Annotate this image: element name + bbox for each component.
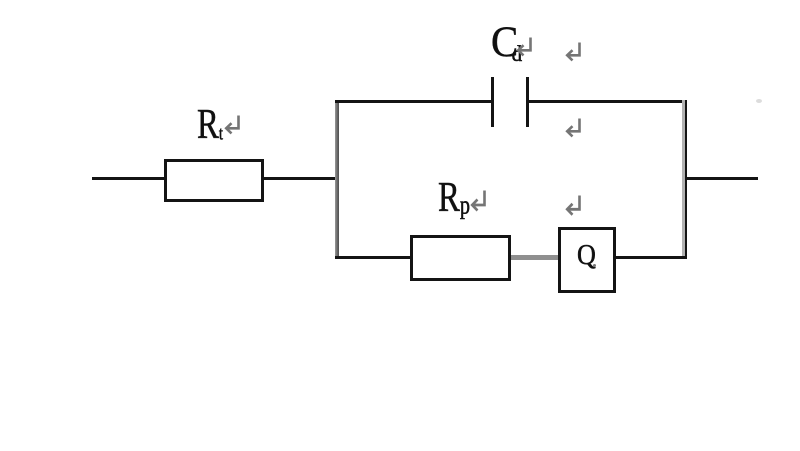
label R_s	[197, 104, 223, 146]
paragraph return mark after C_d	[515, 37, 532, 57]
wire: left entry lead	[92, 177, 165, 180]
paragraph return mark (standalone, row 1)	[564, 42, 581, 62]
paragraph return mark after R_p	[469, 190, 486, 213]
label Q trailing dot	[593, 264, 596, 267]
capacitor C_d left plate	[491, 77, 494, 127]
wire: gray link R_p to Q	[511, 255, 559, 260]
faint smudge top-right	[756, 99, 762, 103]
wire: loop top, capacitor to right	[529, 100, 687, 103]
paragraph return mark (standalone, row 3)	[564, 195, 581, 217]
capacitor C_d right plate	[526, 77, 529, 127]
wire: Q to loop right vertical	[616, 256, 688, 259]
CPE element Q (box)	[558, 227, 616, 293]
wire: right exit lead	[687, 177, 758, 180]
wire: loop left vertical (gray)	[335, 100, 338, 258]
wire: loop right vertical black part	[685, 100, 687, 259]
label C_d	[491, 21, 522, 65]
wire: loop right vertical gray part	[682, 100, 685, 259]
label Q	[577, 241, 596, 270]
label R_p	[438, 177, 470, 219]
wire: loop bottom, left vertical to R_p	[335, 256, 412, 259]
paragraph return mark after R_s	[223, 115, 240, 135]
wire: R_s to parallel loop	[262, 177, 337, 180]
wire: loop top, left segment to capacitor	[335, 100, 492, 103]
resistor R_p (box)	[410, 235, 511, 282]
resistor R_s (box)	[164, 159, 265, 202]
paragraph return mark (standalone, row 2)	[564, 118, 581, 138]
